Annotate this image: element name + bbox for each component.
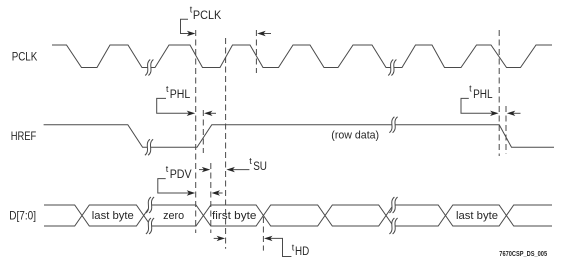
wire tPCLK callout elbow <box>181 19 191 33</box>
break symbol PCLK left <box>145 60 153 76</box>
arrowhead tPCLK left-pointing <box>257 31 266 36</box>
wire HREF waveform <box>44 125 554 148</box>
wire tSU left arrow tail <box>199 169 205 171</box>
break symbol D bus right bottom <box>389 218 397 234</box>
wire tPDV measure tail <box>217 192 223 194</box>
svg-text:(row data): (row data) <box>331 130 379 142</box>
wire tPDV callout elbow <box>158 179 190 193</box>
break symbol D bus left top <box>146 197 154 213</box>
arrowhead tPDV left-pointing <box>212 190 221 195</box>
svg-text:t: t <box>166 84 169 94</box>
node dashed line t7 (right PCLK fall) <box>498 30 500 156</box>
wire D[7:0] bus line B <box>44 205 552 226</box>
wire tSU callout tail <box>232 169 249 171</box>
arrowhead tPHL-right left-pointing <box>507 111 516 116</box>
wire tHD callout elbow <box>270 238 292 256</box>
node dashed line t8 (HREF fall mid) <box>505 106 507 154</box>
break symbol D bus right top <box>389 197 397 213</box>
node dashed line t2 (HREF rise mid) <box>202 110 204 153</box>
svg-text:last byte: last byte <box>92 210 134 222</box>
node dashed line t6 (data change) <box>262 217 264 251</box>
svg-text:PCLK: PCLK <box>193 10 222 22</box>
svg-text:PHL: PHL <box>170 89 191 101</box>
arrowhead tSU right-pointing <box>202 167 211 172</box>
svg-text:PDV: PDV <box>170 169 192 181</box>
node dashed line t4 (PCLK rise reference) <box>225 38 227 249</box>
break symbol PCLK right <box>388 60 396 76</box>
svg-text:t: t <box>166 164 169 174</box>
wire tPCLK right measure tail <box>263 33 272 35</box>
node dashed line t5 (PCLK next fall) <box>255 30 257 73</box>
node dashed line t1 (PCLK fall reference) <box>195 30 197 233</box>
svg-text:SU: SU <box>253 161 267 173</box>
svg-text:D[7:0]: D[7:0] <box>9 208 36 222</box>
svg-text:HREF: HREF <box>11 129 37 143</box>
break symbol D bus left bottom <box>146 218 154 234</box>
arrowhead tPCLK right-pointing <box>187 31 196 36</box>
wire tPHL right callout elbow <box>461 98 494 113</box>
node dashed line t3 (data valid) <box>210 163 212 233</box>
arrowhead tPHL-right right-pointing <box>490 111 499 116</box>
arrowhead tPHL-left right-pointing <box>187 111 196 116</box>
arrowhead tPHL-left left-pointing <box>204 111 213 116</box>
svg-text:PHL: PHL <box>473 89 493 101</box>
svg-text:t: t <box>469 83 472 93</box>
wire tPHL left callout elbow <box>157 98 190 113</box>
arrowhead tPDV right-pointing <box>187 190 196 195</box>
arrowhead tSU left-pointing <box>226 167 235 172</box>
wire tPHL left measure tail <box>210 112 217 114</box>
wire PCLK waveform <box>52 45 552 68</box>
break symbol HREF left <box>145 139 153 155</box>
svg-text:HD: HD <box>295 246 309 258</box>
svg-text:PCLK: PCLK <box>12 49 38 63</box>
wire D[7:0] bus line A <box>44 205 552 226</box>
arrowhead tHD right-pointing <box>217 236 226 241</box>
svg-text:first byte: first byte <box>212 210 256 222</box>
break symbol HREF right <box>389 117 397 133</box>
svg-text:7670CSP_DS_005: 7670CSP_DS_005 <box>499 249 547 258</box>
svg-text:last byte: last byte <box>456 210 498 222</box>
arrowhead tHD left-pointing <box>264 236 273 241</box>
svg-text:zero: zero <box>163 210 184 222</box>
wire tHD left arrow tail <box>214 237 220 239</box>
wire tPHL right measure tail <box>512 112 521 114</box>
svg-text:t: t <box>249 156 252 166</box>
